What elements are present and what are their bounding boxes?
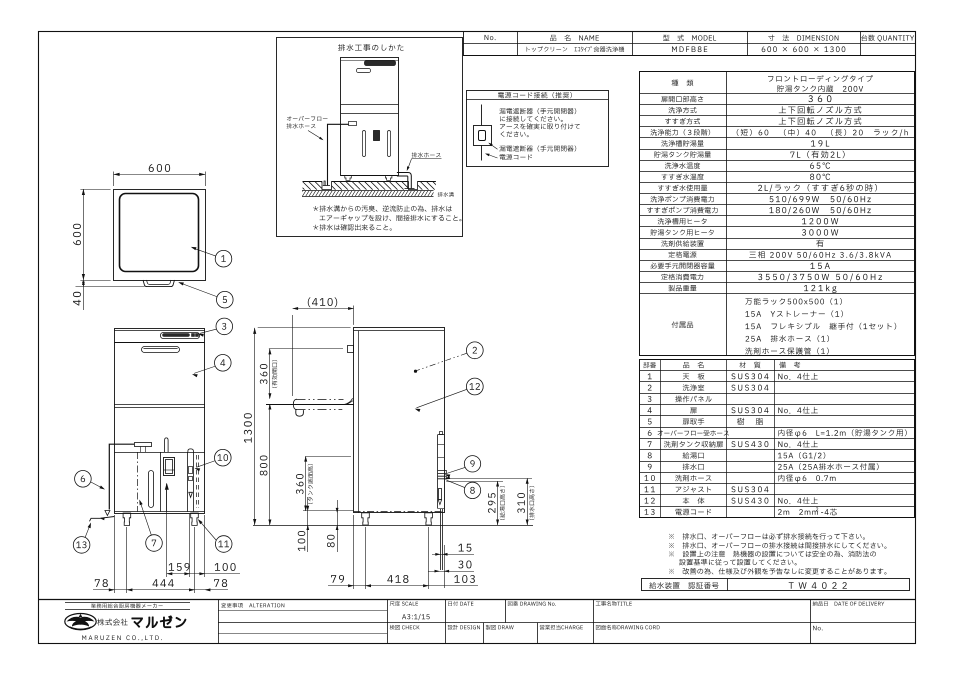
callout 7 detergent tank door [139, 500, 162, 552]
drain work instruction box [277, 38, 463, 237]
overflow hose label [287, 116, 328, 140]
side dim 1300 [244, 328, 351, 526]
plan dim 40 handle [73, 280, 145, 310]
breaker symbol [474, 105, 492, 161]
front door handle slot [142, 347, 180, 353]
callout 9 drain outlet [445, 456, 481, 478]
plan dim 600 vertical [73, 189, 111, 281]
front control panel [161, 333, 200, 339]
side dim 79-418-103 [328, 515, 478, 589]
plan view outline [114, 190, 206, 281]
callout 13 power cord [73, 523, 91, 554]
drain box notes [313, 205, 461, 230]
product name row [527, 46, 624, 52]
callout 4 door [192, 355, 231, 378]
title block grid [38, 599, 915, 643]
front dim 159-100 [167, 490, 241, 577]
front detergent hose item10 [188, 449, 199, 512]
front view body outline [114, 329, 205, 514]
plan dim 600 horizontal [114, 164, 206, 186]
side dim 30 [428, 545, 474, 588]
callout 3 operation panel [198, 318, 232, 337]
overflow hose in illustration [323, 122, 357, 186]
notes below parts table [669, 533, 886, 575]
drain box title [338, 44, 403, 51]
side back pipe channel [438, 432, 447, 571]
plan view handle [143, 280, 175, 287]
callout 2 washing chamber [414, 342, 483, 373]
callout 11 adjuster [198, 519, 232, 552]
power cord connection box [466, 91, 609, 167]
callout 1 top panel [191, 247, 232, 267]
breaker label with leader [488, 143, 576, 152]
top table header text [485, 35, 496, 40]
mini dishwasher illustration [341, 58, 399, 181]
side dim 800 [260, 404, 272, 525]
side dim 410 [293, 297, 354, 396]
callout 6 overflow hose [75, 471, 105, 490]
side feet [362, 513, 433, 525]
top header table [463, 31, 915, 56]
spec table text [647, 75, 908, 293]
title block labels [221, 601, 884, 630]
callout 5 door handle [178, 282, 233, 308]
front overflow hose item6 [105, 444, 134, 515]
power cord box text [499, 108, 580, 137]
front feet [123, 513, 198, 525]
callout 8 water inlet [445, 476, 481, 499]
front dim 78-444-78 [93, 515, 228, 593]
callout 12 body [415, 378, 483, 412]
parts list table grid [639, 359, 915, 517]
drain gutter label [438, 192, 454, 197]
ground hatching [296, 181, 441, 196]
parts table text [643, 362, 906, 516]
drain hose label [407, 152, 442, 171]
side dim 360 tank bottom [296, 456, 351, 511]
side dim 310 drain height [446, 478, 534, 525]
side dim 15 [432, 544, 474, 556]
cord label with leader [485, 154, 532, 161]
front power cord item13 [90, 517, 115, 522]
front overflow fitting [135, 443, 152, 453]
side open door phantom [266, 398, 354, 416]
front detergent pump pipe [164, 438, 175, 512]
side dim 100 and 80 [298, 497, 354, 552]
side dim 295 inlet height [446, 481, 505, 525]
drain hose in illustration [397, 173, 415, 189]
floor line under side view [253, 525, 533, 527]
maker logo cell [65, 603, 190, 641]
front lower cabinet door [138, 452, 161, 512]
side dim 360 opening [260, 349, 277, 399]
side door handle profile [348, 346, 354, 353]
accessories row [672, 298, 897, 355]
callout 10 detergent hose [195, 449, 232, 471]
water supply certification box [642, 579, 910, 591]
side view body outline [354, 328, 445, 513]
side opening extension line [269, 348, 343, 350]
specification table grid [639, 71, 915, 356]
